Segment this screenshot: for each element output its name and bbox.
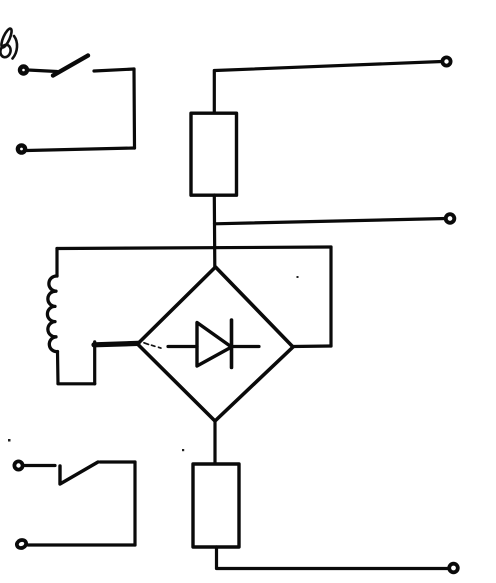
resistor R2	[193, 464, 239, 547]
wire loop top	[57, 247, 331, 249]
switch S2 terminal lower	[16, 539, 28, 550]
terminal middle-right	[446, 214, 455, 223]
wire middle output	[215, 219, 447, 224]
wire	[28, 70, 57, 72]
wire right lead	[293, 344, 331, 348]
wire top output	[215, 62, 442, 71]
speck	[8, 276, 299, 451]
diode D1 triangle	[197, 323, 232, 367]
switch S2 terminal upper	[14, 461, 22, 469]
diode D1 cathode bar	[230, 320, 234, 368]
switch S2 blade	[60, 462, 98, 484]
wire bottom output	[217, 567, 450, 570]
terminal bottom-right	[449, 564, 458, 573]
wire	[94, 343, 138, 344]
diode D1 cathode lead	[233, 345, 259, 348]
terminal top-right	[442, 57, 450, 65]
wire	[55, 249, 58, 277]
wire	[100, 460, 135, 463]
diode D1 lead dots	[144, 343, 161, 348]
wire	[27, 148, 135, 151]
wire	[56, 352, 60, 384]
wire	[28, 543, 135, 546]
wire	[213, 71, 216, 113]
wire	[213, 195, 217, 267]
wire	[94, 69, 134, 71]
diode bridge diamond	[138, 267, 294, 421]
wire	[132, 69, 136, 148]
inductor L1	[47, 276, 57, 352]
wire	[133, 462, 136, 545]
switch S1 terminal lower-left	[18, 145, 25, 152]
label в)	[0, 27, 17, 58]
switch S1 blade	[53, 56, 88, 76]
diode D1 anode lead	[168, 345, 197, 348]
switch S1 terminal upper-left	[20, 67, 27, 74]
wire	[215, 547, 218, 568]
wire bottom of bridge	[213, 421, 216, 463]
wire	[58, 382, 95, 385]
resistor R1	[191, 113, 237, 195]
wire	[24, 464, 55, 467]
wire	[93, 342, 96, 384]
wire loop right	[329, 247, 332, 346]
